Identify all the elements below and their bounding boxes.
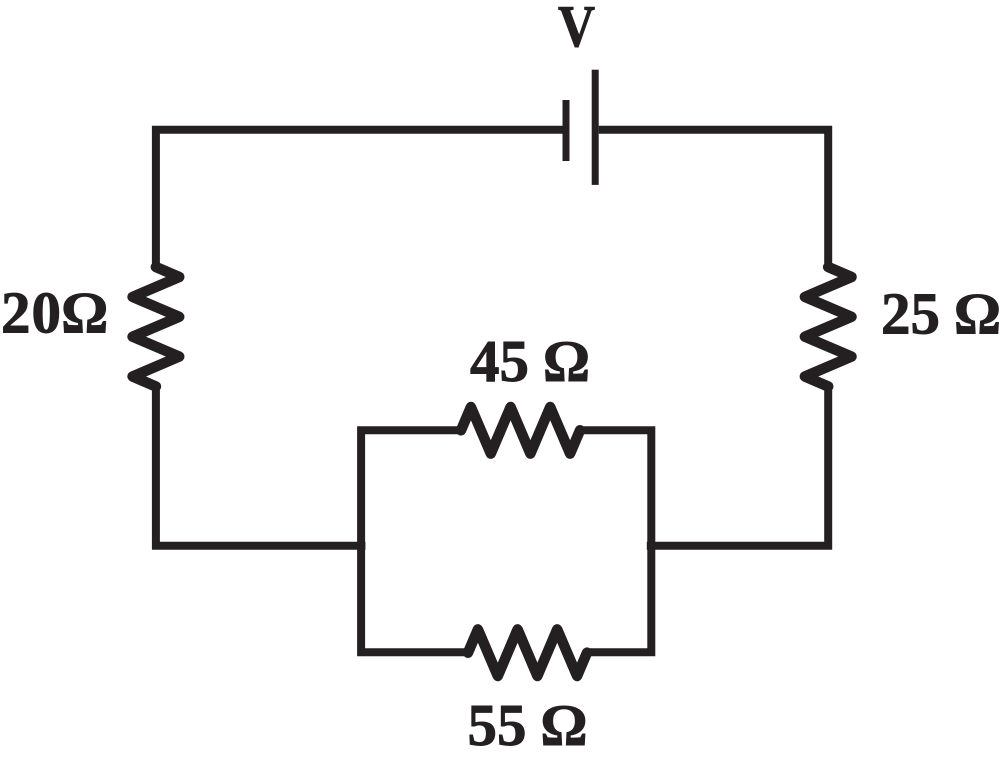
wire top-right segment and right vertical upper	[599, 130, 829, 268]
wire top-left segment and left vertical upper	[156, 130, 563, 268]
svg-text:V: V	[558, 0, 595, 59]
wire left vertical lower and bottom-left horizontal	[156, 386, 366, 546]
svg-text:45 Ω: 45 Ω	[470, 328, 589, 394]
wire inner-box left C (top-left, left side, bottom-left)	[361, 430, 469, 652]
wire inner-box right C (top-right, right side, bottom-right)	[579, 430, 651, 652]
battery V short plate (negative)	[563, 100, 570, 161]
svg-text:55 Ω: 55 Ω	[467, 692, 586, 758]
svg-text:25 Ω: 25 Ω	[881, 280, 1000, 346]
resistor R-20 (20 ohm, left vertical zigzag)	[133, 267, 180, 387]
resistor R-45 (45 ohm, horizontal zigzag on inner-box top)	[461, 407, 580, 454]
wire right vertical lower and bottom-right horizontal	[647, 386, 828, 546]
resistor R-25 (25 ohm, right vertical zigzag)	[805, 267, 852, 387]
battery V long plate (positive)	[592, 70, 599, 185]
resistor R-55 (55 ohm, horizontal zigzag on inner-box bottom)	[468, 629, 587, 676]
svg-text:20Ω: 20Ω	[1, 280, 108, 346]
